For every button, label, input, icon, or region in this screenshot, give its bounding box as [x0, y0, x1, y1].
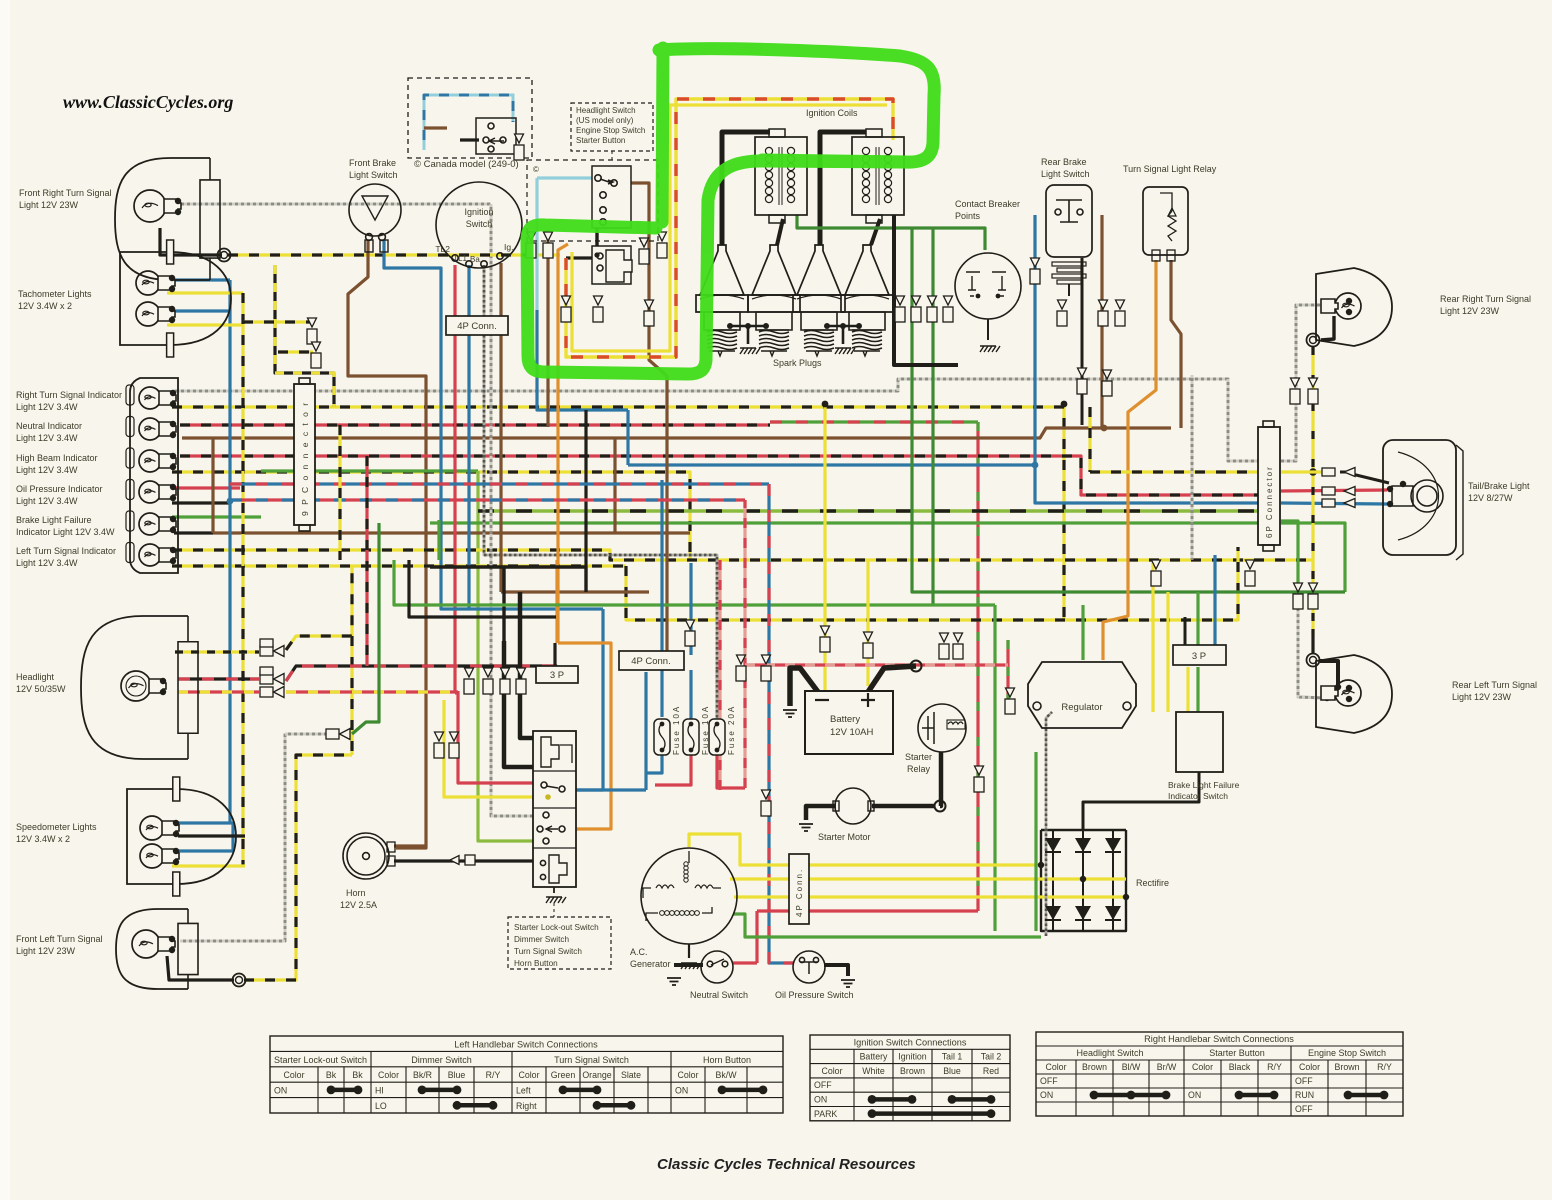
svg-text:Rear Right Turn Signal: Rear Right Turn Signal	[1440, 294, 1531, 304]
svg-text:Spark Plugs: Spark Plugs	[773, 358, 822, 368]
svg-text:Light 12V 3.4W: Light 12V 3.4W	[16, 558, 78, 568]
svg-text:Starter Button: Starter Button	[1209, 1048, 1265, 1058]
svg-text:Right Handlebar Switch Connect: Right Handlebar Switch Connections	[1144, 1034, 1294, 1044]
svg-text:Front Right Turn Signal: Front Right Turn Signal	[19, 188, 112, 198]
svg-text:Horn Button: Horn Button	[703, 1055, 751, 1065]
svg-text:12V 3.4W x 2: 12V 3.4W x 2	[18, 301, 72, 311]
svg-text:9 P C o n n e c t o r: 9 P C o n n e c t o r	[300, 401, 310, 516]
svg-text:3 P: 3 P	[550, 670, 564, 681]
svg-text:3 P: 3 P	[1192, 651, 1206, 662]
svg-text:A.C.: A.C.	[630, 947, 648, 957]
svg-text:Brake Light Failure: Brake Light Failure	[1168, 780, 1240, 790]
svg-text:Dimmer Switch: Dimmer Switch	[514, 935, 569, 944]
svg-text:OFF: OFF	[1295, 1104, 1313, 1114]
svg-text:Regulator: Regulator	[1061, 702, 1102, 713]
svg-text:Brown: Brown	[1082, 1062, 1107, 1072]
svg-text:Light 12V 23W: Light 12V 23W	[16, 946, 76, 956]
svg-text:Tail 1: Tail 1	[942, 1052, 963, 1062]
svg-text:Light 12V 23W: Light 12V 23W	[1440, 306, 1500, 316]
svg-text:Dimmer Switch: Dimmer Switch	[411, 1055, 472, 1065]
svg-text:Brake Light Failure: Brake Light Failure	[16, 515, 92, 525]
svg-text:Light 12V 3.4W: Light 12V 3.4W	[16, 496, 78, 506]
svg-text:Turn Signal Switch: Turn Signal Switch	[554, 1055, 629, 1065]
svg-text:Oil Pressure Indicator: Oil Pressure Indicator	[16, 484, 103, 494]
svg-text:R/Y: R/Y	[1377, 1062, 1392, 1072]
svg-text:Left Turn Signal Indicator: Left Turn Signal Indicator	[16, 546, 116, 556]
svg-text:Right Turn Signal Indicator: Right Turn Signal Indicator	[16, 390, 122, 400]
svg-text:Classic Cycles Technical Resou: Classic Cycles Technical Resources	[657, 1156, 916, 1173]
svg-text:Engine Stop Switch: Engine Stop Switch	[1308, 1048, 1386, 1058]
svg-text:ON: ON	[1040, 1090, 1053, 1100]
svg-text:Light 12V 3.4W: Light 12V 3.4W	[16, 402, 78, 412]
svg-text:Br/W: Br/W	[1157, 1062, 1177, 1072]
svg-text:Tachometer Lights: Tachometer Lights	[18, 289, 92, 299]
svg-text:Fuse 10A: Fuse 10A	[672, 705, 681, 755]
svg-text:Battery: Battery	[830, 714, 860, 725]
svg-text:OFF: OFF	[814, 1080, 832, 1090]
svg-text:6P Connector: 6P Connector	[1265, 465, 1274, 538]
svg-text:Color: Color	[1299, 1062, 1320, 1072]
svg-text:ON: ON	[814, 1095, 827, 1105]
svg-text:Bl/W: Bl/W	[1122, 1062, 1141, 1072]
svg-text:ON: ON	[274, 1086, 287, 1096]
svg-text:Orange: Orange	[582, 1070, 611, 1080]
svg-text:Turn Signal Switch: Turn Signal Switch	[514, 947, 582, 956]
svg-text:Brown: Brown	[900, 1066, 925, 1076]
svg-text:4P Conn.: 4P Conn.	[795, 868, 804, 917]
svg-text:Indicator Light 12V 3.4W: Indicator Light 12V 3.4W	[16, 527, 115, 537]
svg-text:4P Conn.: 4P Conn.	[631, 656, 670, 667]
svg-text:Red: Red	[983, 1066, 999, 1076]
svg-text:Horn: Horn	[346, 888, 366, 898]
svg-text:Rectifire: Rectifire	[1136, 878, 1169, 888]
svg-text:Light 12V 3.4W: Light 12V 3.4W	[16, 433, 78, 443]
svg-text:Black: Black	[1229, 1062, 1251, 1072]
svg-text:Headlight Switch: Headlight Switch	[576, 106, 636, 115]
svg-text:Rear Left Turn Signal: Rear Left Turn Signal	[1452, 680, 1537, 690]
svg-text:Headlight Switch: Headlight Switch	[1076, 1048, 1143, 1058]
svg-text:Ignition: Ignition	[898, 1052, 926, 1062]
svg-text:TL1: TL1	[453, 254, 467, 263]
svg-text:Light 12V 3.4W: Light 12V 3.4W	[16, 465, 78, 475]
svg-text:ON: ON	[1188, 1090, 1201, 1100]
svg-text:www.ClassicCycles.org: www.ClassicCycles.org	[63, 92, 233, 112]
svg-text:TL2: TL2	[435, 244, 450, 254]
svg-text:Light Switch: Light Switch	[1041, 169, 1090, 179]
svg-text:Light 12V 23W: Light 12V 23W	[19, 200, 79, 210]
svg-text:OFF: OFF	[1040, 1076, 1058, 1086]
svg-text:Front Brake: Front Brake	[349, 158, 396, 168]
svg-text:Ba.: Ba.	[470, 255, 482, 264]
svg-text:Color: Color	[518, 1070, 539, 1080]
svg-text:Ig.: Ig.	[504, 242, 513, 252]
svg-text:Bk: Bk	[326, 1070, 337, 1080]
svg-text:Light Switch: Light Switch	[349, 170, 398, 180]
svg-text:Horn Button: Horn Button	[514, 959, 558, 968]
svg-text:HI: HI	[375, 1086, 384, 1096]
svg-text:LO: LO	[375, 1101, 387, 1111]
svg-text:Rear Brake: Rear Brake	[1041, 157, 1087, 167]
svg-text:Indicator Switch: Indicator Switch	[1168, 791, 1228, 801]
svg-text:12V 8/27W: 12V 8/27W	[1468, 493, 1513, 503]
svg-text:Ignition Coils: Ignition Coils	[806, 108, 858, 118]
svg-text:(US model only): (US model only)	[576, 116, 634, 125]
svg-text:Speedometer Lights: Speedometer Lights	[16, 822, 97, 832]
svg-text:12V 10AH: 12V 10AH	[830, 727, 873, 738]
svg-text:Starter Lock-out Switch: Starter Lock-out Switch	[274, 1055, 367, 1065]
svg-text:Fuse 20A: Fuse 20A	[727, 705, 736, 755]
svg-text:12V 3.4W x 2: 12V 3.4W x 2	[16, 834, 70, 844]
svg-text:Blue: Blue	[943, 1066, 961, 1076]
svg-text:Blue: Blue	[448, 1070, 466, 1080]
svg-text:Headlight: Headlight	[16, 672, 55, 682]
svg-text:Left Handlebar Switch Connecti: Left Handlebar Switch Connections	[454, 1039, 598, 1049]
svg-text:Green: Green	[551, 1070, 576, 1080]
svg-text:PARK: PARK	[814, 1109, 837, 1119]
svg-text:Color: Color	[677, 1070, 698, 1080]
svg-text:Starter Lock-out Switch: Starter Lock-out Switch	[514, 923, 599, 932]
svg-text:Starter: Starter	[905, 752, 932, 762]
svg-text:OFF: OFF	[1295, 1076, 1313, 1086]
svg-text:Tail 2: Tail 2	[981, 1052, 1002, 1062]
svg-text:Ignition Switch Connections: Ignition Switch Connections	[854, 1037, 967, 1047]
svg-text:Color: Color	[821, 1066, 842, 1076]
svg-text:Neutral Switch: Neutral Switch	[690, 990, 748, 1000]
svg-text:Brown: Brown	[1335, 1062, 1360, 1072]
svg-text:Light 12V 23W: Light 12V 23W	[1452, 692, 1512, 702]
svg-text:Ignition: Ignition	[464, 207, 493, 217]
svg-text:Engine Stop Switch: Engine Stop Switch	[576, 126, 645, 135]
svg-text:Tail/Brake Light: Tail/Brake Light	[1468, 481, 1530, 491]
svg-text:White: White	[862, 1066, 885, 1076]
svg-text:RUN: RUN	[1295, 1090, 1314, 1100]
svg-text:Color: Color	[1192, 1062, 1213, 1072]
svg-text:12V 2.5A: 12V 2.5A	[340, 900, 377, 910]
svg-text:Generator: Generator	[630, 959, 671, 969]
svg-text:Starter Motor: Starter Motor	[818, 832, 871, 842]
svg-text:ON: ON	[675, 1086, 688, 1096]
svg-text:Turn Signal Light Relay: Turn Signal Light Relay	[1123, 164, 1217, 174]
svg-text:R/Y: R/Y	[486, 1070, 501, 1080]
svg-text:Starter Button: Starter Button	[576, 136, 625, 145]
svg-text:Contact Breaker: Contact Breaker	[955, 199, 1020, 209]
svg-text:Color: Color	[1045, 1062, 1066, 1072]
svg-text:Bk/R: Bk/R	[413, 1070, 432, 1080]
svg-text:4P Conn.: 4P Conn.	[457, 321, 496, 332]
svg-text:Slate: Slate	[621, 1070, 641, 1080]
svg-text:© Canada model (249-0): © Canada model (249-0)	[414, 159, 519, 170]
svg-text:Oil Pressure Switch: Oil Pressure Switch	[775, 990, 854, 1000]
svg-text:Neutral Indicator: Neutral Indicator	[16, 421, 82, 431]
svg-text:Color: Color	[378, 1070, 399, 1080]
svg-text:Bk: Bk	[352, 1070, 363, 1080]
svg-text:Battery: Battery	[860, 1052, 888, 1062]
svg-text:Right: Right	[516, 1101, 537, 1111]
svg-text:12V 50/35W: 12V 50/35W	[16, 684, 66, 694]
svg-text:High Beam Indicator: High Beam Indicator	[16, 453, 98, 463]
svg-text:Bk/W: Bk/W	[715, 1070, 737, 1080]
svg-text:Color: Color	[283, 1070, 304, 1080]
svg-text:Points: Points	[955, 211, 981, 221]
svg-text:Switch: Switch	[466, 219, 493, 229]
svg-text:©: ©	[533, 165, 539, 174]
svg-text:Relay: Relay	[907, 764, 931, 774]
svg-text:Left: Left	[516, 1086, 531, 1096]
svg-text:Front Left Turn Signal: Front Left Turn Signal	[16, 934, 103, 944]
svg-text:R/Y: R/Y	[1267, 1062, 1282, 1072]
